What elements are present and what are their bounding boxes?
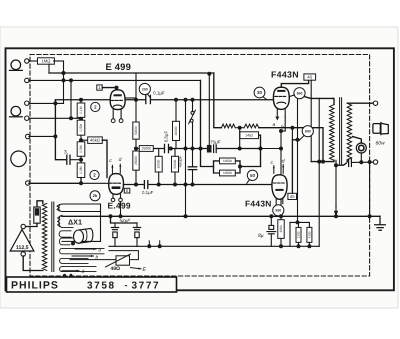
- wire cap to divider node: [71, 159, 81, 161]
- earth rail horizontal: [62, 215, 380, 217]
- svg-text:0,1µF: 0,1µF: [142, 190, 154, 195]
- V2 filament arrows up tap c: [111, 165, 113, 173]
- circled tag 550 top: [294, 88, 305, 99]
- node jumper: [296, 220, 300, 224]
- box tag 45 bottom: [288, 193, 297, 199]
- node top cap wire: [115, 86, 119, 90]
- V2 pins: [112, 194, 114, 198]
- V1 filament legs: [112, 110, 114, 119]
- svg-text:0,5µF: 0,5µF: [164, 131, 169, 143]
- wire RB1 top to grid rail: [175, 100, 177, 122]
- wire vertical x71 to T4 wire: [70, 80, 72, 118]
- wire RB2 top: [158, 149, 160, 157]
- V4 anode bar: [275, 189, 283, 191]
- left loop of output-bias network: [289, 222, 291, 246]
- node R3 x239.7: [238, 147, 242, 151]
- wire 1452 box output down to pair: [259, 135, 261, 166]
- node long vertical on primary bottom wire: [317, 160, 321, 164]
- svg-text:112,5: 112,5: [16, 245, 29, 251]
- svg-text:d: d: [82, 269, 85, 274]
- V3 cathode arc: [277, 102, 286, 103]
- svg-text:49Ω: 49Ω: [111, 266, 121, 272]
- wire 75uF to R3: [205, 148, 208, 150]
- wire T6 grid wire to tube V2: [81, 182, 109, 184]
- node Va on R2: [184, 98, 188, 102]
- svg-text:20000: 20000: [174, 126, 178, 135]
- svg-text:50000: 50000: [134, 126, 138, 135]
- V1 grid dashes: [112, 99, 123, 101]
- svg-text:200: 200: [142, 87, 148, 91]
- wire V2 pin to earth rail: [120, 202, 122, 217]
- box tag 45 top: [304, 74, 316, 80]
- mains fuse box: [34, 207, 40, 223]
- wire rail R1 horizontal: [49, 72, 214, 74]
- dots on dashed border under windings: [63, 274, 66, 277]
- svg-text:14500: 14500: [223, 159, 232, 163]
- svg-text:25000: 25000: [134, 156, 138, 165]
- wire resistor to HT rail corner: [54, 60, 64, 62]
- wire vertical x63.5 from grid leak: [63, 61, 65, 103]
- terminal T3: [25, 101, 29, 105]
- svg-text:2b: 2b: [93, 193, 98, 198]
- mains transformer core lines: [51, 202, 53, 272]
- resistor RA1: [133, 122, 139, 139]
- wire RB2 bottom: [158, 172, 160, 185]
- wire loop to 45b box: [292, 140, 297, 194]
- wire RB1 bottom to R3: [175, 141, 177, 149]
- node earth x368.5: [368, 214, 372, 218]
- node earth x281: [279, 214, 283, 218]
- wire divider top to grid rail: [80, 100, 82, 103]
- capacitor 0.5uF on R3: [164, 144, 166, 152]
- resistor 46k: [88, 137, 103, 144]
- svg-text:E.499: E.499: [108, 201, 131, 211]
- V4 filament arrows tap d: [282, 165, 284, 174]
- V3 filament legs: [276, 109, 278, 115]
- svg-text:550: 550: [297, 92, 303, 96]
- aerial socket symbol 1: [11, 60, 21, 70]
- circled tag 30: [254, 87, 265, 98]
- speaker symbol: [373, 124, 380, 134]
- svg-text:0,5M: 0,5M: [79, 124, 83, 132]
- svg-text:E 499: E 499: [106, 61, 132, 72]
- svg-text:3777: 3777: [132, 281, 161, 292]
- resistor RB3 vertical: [172, 156, 179, 172]
- wire R1 node down to 75uF: [208, 74, 210, 145]
- svg-text:d: d: [282, 159, 285, 165]
- wire droppers to output transformer feed: [259, 128, 323, 162]
- rheostat 49ohm: [109, 251, 138, 260]
- wire primary bottom to screen feed: [311, 160, 334, 161]
- resistor RD3: [77, 142, 85, 157]
- grid rail R2 horizontal: [55, 99, 110, 101]
- capacitor 400pF vertical branch: [192, 149, 194, 167]
- wire anode return vertical with arrow: [335, 160, 337, 207]
- svg-text:3,: 3,: [64, 150, 68, 156]
- terminal T5: [26, 134, 30, 138]
- node R3 meets cathode line: [279, 147, 283, 151]
- capacitor C3 bias: [66, 155, 68, 164]
- circled tag 2 for V2: [90, 170, 99, 179]
- V1 anode bar: [114, 94, 122, 96]
- node x63.5 on T2 wire: [62, 78, 66, 82]
- inner dashed chassis border: [30, 55, 370, 277]
- rail R4 anode wire of V2: [124, 184, 144, 186]
- node dropper feed joins primary wire: [321, 160, 325, 164]
- parallel resistor pair loop: [214, 161, 261, 173]
- svg-text:45: 45: [307, 75, 312, 80]
- svg-text:1MΩ: 1MΩ: [41, 59, 50, 64]
- wire between RD3 RD4: [80, 156, 82, 163]
- circled tag 2 for V1: [91, 102, 100, 111]
- resistor RP1: [220, 158, 236, 164]
- tube E499 triode V1 envelope: [110, 90, 125, 110]
- node R3 x200.5: [199, 147, 203, 151]
- long vertical from output stage to cathode net: [318, 98, 320, 246]
- svg-text:3758: 3758: [87, 281, 116, 292]
- wire rectifier output to earth rail: [61, 215, 63, 217]
- rail R3 horizontal: [135, 148, 164, 150]
- node Va R4: [184, 183, 188, 187]
- node divider J2: [79, 138, 83, 142]
- wire T1 to grid-leak resistor: [29, 60, 38, 62]
- V1 pin circles: [111, 119, 115, 123]
- node secondary bottom: [359, 160, 363, 164]
- node earth x110.5: [109, 214, 113, 218]
- screen dropper vertical from 550 down to cathode jumper: [297, 99, 299, 223]
- wire rail R1 to anode resistor: [135, 73, 137, 122]
- node x71 on T4 wire: [69, 116, 73, 120]
- wire RA1 to R3: [135, 139, 137, 151]
- svg-text:10000: 10000: [157, 159, 161, 168]
- node between droppers: [238, 126, 242, 130]
- node earth x336: [334, 214, 338, 218]
- tube E499 triode V2 envelope: [109, 174, 124, 195]
- svg-text:0,3M: 0,3M: [79, 166, 83, 174]
- node cath x149: [147, 244, 151, 248]
- svg-text:550: 550: [275, 209, 281, 213]
- ground symbol: [375, 216, 386, 230]
- wire T2 branch corner down x200: [201, 80, 214, 166]
- wire bias chain vertical x55.4: [55, 100, 65, 160]
- svg-text:60w: 60w: [376, 141, 386, 147]
- output terminal top: [373, 101, 377, 105]
- V4 grid dashes: [273, 182, 284, 184]
- svg-text:14500: 14500: [223, 171, 232, 175]
- node anode load: [134, 98, 138, 102]
- wire T2 long grid wire: [29, 79, 201, 81]
- svg-text:800: 800: [305, 130, 311, 134]
- electrolytic 52uF b: [136, 223, 138, 228]
- svg-text:0,5M: 0,5M: [79, 145, 83, 153]
- V3 screen wire to circled550: [289, 95, 294, 97]
- AX1 filament winding pill: [59, 231, 71, 237]
- svg-text:1300: 1300: [279, 225, 283, 232]
- electrolytic 8uF cathode: [270, 216, 272, 225]
- node earth x120.5: [119, 214, 123, 218]
- V1 anode wire to load: [125, 97, 136, 99]
- wire between RD2 RD3: [80, 135, 82, 142]
- output terminal bottom: [373, 160, 377, 164]
- terminal T1: [25, 59, 29, 63]
- circled tag 2b for V2: [90, 191, 100, 201]
- dropper resistor zigzag Z2: [244, 124, 259, 128]
- resistor RD4: [77, 163, 85, 178]
- cathode bottom wire: [109, 245, 319, 247]
- circled tag 200: [139, 83, 150, 94]
- wire RA2 to R4: [135, 170, 137, 184]
- svg-text:E: E: [143, 267, 147, 273]
- V4 filament legs and pins: [275, 199, 277, 203]
- HT winding center-tap pill: [59, 215, 73, 227]
- svg-text:30: 30: [257, 90, 262, 95]
- node divider J1: [79, 117, 83, 121]
- wire 46k to triode 2 grid: [102, 140, 107, 177]
- mains voltage triangle 112.5: [10, 230, 34, 252]
- mains terminal bottom: [21, 252, 25, 256]
- mains transformer primary coil: [42, 203, 46, 270]
- tone capacitor in secondary line: [336, 163, 346, 165]
- V2 grid dashes: [110, 182, 121, 184]
- switch contact on x192 branch: [192, 100, 194, 112]
- svg-text:-: -: [125, 280, 128, 290]
- node AX1 output: [71, 241, 75, 245]
- svg-text:0,1M: 0,1M: [79, 106, 83, 114]
- label box under droppers: [240, 132, 259, 139]
- wire T3 to bias chain: [29, 102, 64, 104]
- node pair right: [238, 165, 242, 169]
- node R3 right end: [259, 147, 263, 151]
- wire AX1 to filament winding: [62, 240, 73, 242]
- dropper resistor zigzag Z1: [221, 124, 235, 128]
- wire terminal bottom down to earth: [369, 162, 371, 216]
- resistor RK2: [296, 227, 301, 242]
- svg-text:b: b: [96, 254, 99, 259]
- resistor 1M grid leak: [38, 58, 55, 64]
- wire branch to 52uF caps: [111, 216, 138, 223]
- wire Z1 node down to R3: [239, 128, 241, 149]
- V4 filament arrows tap c: [273, 166, 275, 174]
- circled tag 800: [302, 126, 313, 137]
- wire T5 stub: [29, 135, 56, 137]
- wire rail R1 left drop: [48, 64, 50, 73]
- wire secondary bottom to terminal: [346, 160, 348, 162]
- output transformer secondary coil: [347, 103, 351, 160]
- node RB3 bottom: [173, 183, 177, 187]
- mains terminal top: [21, 224, 25, 228]
- aerial socket symbol 2: [11, 106, 21, 116]
- resistor 25k on R3: [139, 146, 153, 152]
- long vertical Va to earth rail: [185, 100, 187, 217]
- svg-text:d: d: [119, 157, 122, 163]
- rail R3 extension to output cathode line: [261, 148, 282, 150]
- svg-text:ΔX1: ΔX1: [68, 218, 82, 227]
- node R4 x192: [191, 183, 195, 187]
- svg-text:F443N: F443N: [271, 69, 299, 79]
- electrolytic 75uF block: [207, 145, 212, 153]
- V2 anode bar: [112, 186, 121, 189]
- node R2 x192: [191, 98, 195, 102]
- resistor RD1: [77, 103, 85, 117]
- node Va earth rail: [184, 214, 188, 218]
- wire 550 to output transformer primary: [304, 97, 332, 99]
- outer solid border frame: [6, 48, 394, 290]
- terminal T6: [26, 181, 30, 185]
- node RA2 R4: [134, 183, 138, 187]
- top-cap box 1: [97, 85, 102, 90]
- wire divider bottom to T6: [29, 178, 81, 184]
- tube F443N V4 envelope: [272, 175, 287, 200]
- circled 200 pointer: [148, 94, 151, 98]
- svg-text:4150: 4150: [307, 231, 311, 238]
- node R3 x184.8: [184, 147, 188, 151]
- arrow E annotation: [131, 268, 142, 269]
- svg-text:1300: 1300: [297, 231, 301, 238]
- svg-text:400pF: 400pF: [177, 155, 182, 167]
- wire screen branch above loop: [291, 128, 293, 140]
- svg-text:F443N: F443N: [245, 198, 272, 208]
- V3 filament pin arrows: [275, 117, 279, 121]
- svg-text:PHILIPS: PHILIPS: [11, 280, 59, 292]
- svg-text:46kΩ: 46kΩ: [90, 138, 100, 143]
- screen feed vertical from tag45a to primary bottom: [310, 80, 312, 161]
- wire primary top: [333, 98, 335, 104]
- electrolytic 52uF a: [114, 223, 116, 228]
- node R3 x170.8: [169, 147, 173, 151]
- resistor RP2: [220, 170, 236, 176]
- output transformer primary coil: [330, 105, 334, 161]
- PHILIPS title box: [7, 277, 177, 292]
- AX1 rectifier loop box: [73, 204, 101, 241]
- node cath x281: [279, 244, 283, 248]
- V1 cathode arc: [113, 105, 121, 106]
- pick-up socket symbol 3: [11, 151, 27, 167]
- resistor RB2 vertical: [155, 156, 162, 172]
- node on rail R1: [62, 71, 66, 75]
- AX1 rectifier tube cylinder: [74, 230, 84, 243]
- node RB2 bottom: [157, 183, 161, 187]
- circled tag 550 bottom: [273, 205, 284, 216]
- meter wires: [360, 153, 362, 162]
- svg-text:52µF: 52µF: [120, 218, 132, 223]
- node on T2 wire: [69, 78, 73, 82]
- box tag 6: [124, 188, 130, 193]
- tube F443N V3 envelope: [273, 87, 289, 109]
- node RA1 R3: [134, 147, 138, 151]
- V3 anode top wire to tag 45: [281, 80, 308, 87]
- node earth x271.3: [269, 214, 273, 218]
- V3 grid dashes: [275, 95, 286, 97]
- output transformer core lines: [339, 98, 341, 165]
- svg-text:o: o: [99, 247, 102, 252]
- resistor RA2: [133, 151, 139, 170]
- resistor RB1 vertical: [173, 121, 180, 140]
- filament winding pill 2: [60, 248, 104, 253]
- heater tap arrow b: [72, 255, 94, 257]
- node cath x160: [158, 244, 162, 248]
- heater tap wire c into rheostat: [70, 259, 116, 261]
- node cath x310.8: [307, 244, 311, 248]
- heater tap arrow a: [75, 248, 96, 250]
- V3 cathode wire down to bias resistor: [284, 117, 286, 131]
- wire T4 to divider: [29, 117, 81, 119]
- meter/pilot circle: [356, 143, 366, 153]
- node R3 x192.5: [191, 147, 195, 151]
- V2 filament arrows up tap d: [119, 164, 121, 173]
- svg-text:50: 50: [250, 173, 255, 178]
- node primary bottom: [334, 163, 338, 167]
- node divider bottom: [79, 181, 83, 185]
- filament winding pill 4: [60, 267, 96, 272]
- V3 anode bar: [277, 90, 285, 92]
- wire switch to R3: [192, 122, 194, 148]
- wire fuse to mains terminal: [25, 223, 37, 226]
- coupling capacitor 0.1uF on grid rail: [145, 95, 147, 103]
- svg-text:25000: 25000: [142, 147, 152, 151]
- wire fuse to primary top: [37, 201, 43, 207]
- resistor RD2: [77, 120, 85, 135]
- resistor RK3: [307, 227, 312, 242]
- wire J2 to 46k: [81, 139, 88, 141]
- svg-text:45: 45: [290, 194, 295, 199]
- filament winding pill 3: [60, 258, 88, 263]
- heater tap arrow d: [62, 270, 79, 272]
- terminal T4: [25, 116, 29, 120]
- svg-text:8µ: 8µ: [258, 233, 264, 239]
- wire box1 to tube top cap: [102, 88, 116, 91]
- svg-text:0,1µF: 0,1µF: [153, 91, 165, 96]
- svg-text:75µF: 75µF: [210, 139, 221, 144]
- cathode jumper wire: [290, 221, 309, 223]
- wire RB3 bottom: [174, 172, 176, 185]
- terminal T2: [25, 78, 29, 82]
- resistor RK1 cathode bias: [278, 220, 284, 239]
- svg-text:1452: 1452: [245, 134, 253, 138]
- node rail R1 right branch: [207, 72, 211, 76]
- wire secondary top to terminal: [347, 102, 373, 104]
- circled tag 50: [247, 170, 257, 180]
- coupling capacitor 0.1uF on R4: [143, 181, 145, 189]
- node RB1 top: [174, 98, 178, 102]
- wire RB3 top: [174, 149, 176, 157]
- wire rail R1 corner down to dropper resistors: [214, 73, 222, 128]
- node cath x300: [297, 244, 301, 248]
- HT secondary winding pill: [59, 204, 101, 212]
- node divider J3: [79, 158, 83, 162]
- node divider top: [79, 98, 83, 102]
- wire mains bottom to primary bottom: [23, 256, 43, 270]
- svg-text:a: a: [273, 122, 276, 128]
